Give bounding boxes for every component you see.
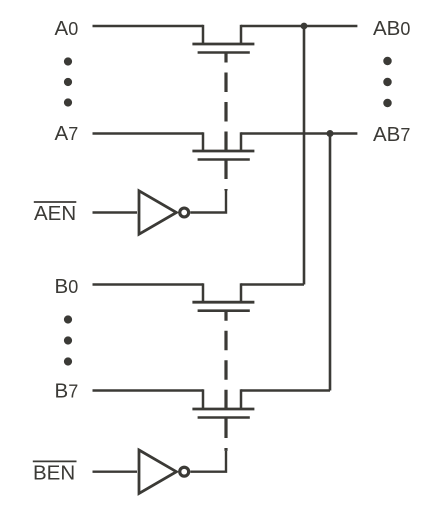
- inverter U1: [139, 191, 189, 234]
- dashed gate line Q1 to Q2 (AEN section): [224, 53, 227, 152]
- wire AB7: [241, 132, 357, 134]
- wire B7 drain to V2: [241, 389, 330, 391]
- transistor Q4 (B7-AB7 pass FET): [192, 389, 254, 417]
- svg-text:AB0: AB0: [373, 17, 410, 40]
- wire A7: [93, 132, 204, 134]
- node label AEN (overline): [34, 202, 77, 225]
- svg-text:AB7: AB7: [373, 123, 410, 146]
- svg-text:B0: B0: [55, 275, 79, 298]
- wire U2 output: [190, 451, 226, 472]
- wire A0: [93, 25, 204, 27]
- wire V2 (AB7 bus drop): [329, 134, 332, 391]
- wire B0 drain to V1: [241, 283, 304, 285]
- dashed gate line Q2 to U1 output: [224, 160, 227, 191]
- junction dot AB0: [301, 23, 308, 30]
- ellipsis dots B: [64, 315, 72, 365]
- wire AB0: [241, 25, 357, 27]
- ellipsis dots A: [64, 57, 72, 106]
- svg-text:A7: A7: [55, 122, 79, 145]
- svg-text:BEN: BEN: [33, 461, 75, 484]
- svg-text:B7: B7: [55, 380, 79, 403]
- svg-text:A0: A0: [55, 17, 79, 40]
- transistor Q1 (A0-AB0 pass FET): [192, 25, 254, 53]
- dashed gate line Q3 to Q4 (BEN section): [224, 311, 227, 409]
- node label BEN (overline): [33, 461, 77, 484]
- dashed gate line Q4 to U2 output: [224, 419, 227, 451]
- svg-text:AEN: AEN: [34, 202, 76, 225]
- wire BEN input: [93, 471, 138, 473]
- wire V1 (AB0 bus drop): [303, 26, 306, 285]
- junction dot AB7: [327, 130, 334, 137]
- wire B7: [93, 389, 204, 391]
- ellipsis dots AB: [383, 57, 392, 108]
- inverter U2: [139, 450, 189, 493]
- wire AEN input: [93, 211, 138, 213]
- transistor Q3 (B0-AB0 pass FET): [192, 283, 254, 310]
- wire U1 output: [190, 191, 226, 213]
- wire B0: [93, 283, 204, 285]
- transistor Q2 (A7-AB7 pass FET): [192, 132, 254, 159]
